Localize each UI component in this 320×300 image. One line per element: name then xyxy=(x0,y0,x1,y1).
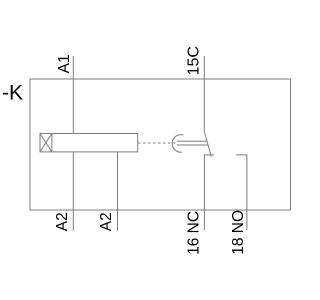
wire 15C lead and moving contact diagonal xyxy=(204,56,211,157)
contact 18 NO seat and lead xyxy=(236,155,247,230)
coil K rectangle xyxy=(40,134,138,152)
svg-text:18 NO: 18 NO xyxy=(230,210,247,255)
svg-text:A1: A1 xyxy=(56,54,73,73)
coil X mark xyxy=(40,134,52,152)
actuator arc xyxy=(172,135,183,153)
wire A2 lead right xyxy=(117,152,119,231)
svg-text:16 NC: 16 NC xyxy=(185,211,202,255)
actuator bar top xyxy=(177,140,207,142)
contact 16 NC seat and lead xyxy=(204,155,213,230)
wire A2 lead left xyxy=(72,152,74,231)
actuator bar bottom xyxy=(177,144,208,146)
wire actuator dashed link xyxy=(138,142,177,144)
svg-text:15C: 15C xyxy=(186,46,203,75)
svg-text:-K: -K xyxy=(2,82,23,105)
coil divider xyxy=(51,134,53,152)
svg-text:A2: A2 xyxy=(54,212,71,231)
enclosure box xyxy=(30,79,291,210)
svg-text:A2: A2 xyxy=(98,212,115,231)
wire A1 lead xyxy=(72,56,74,134)
